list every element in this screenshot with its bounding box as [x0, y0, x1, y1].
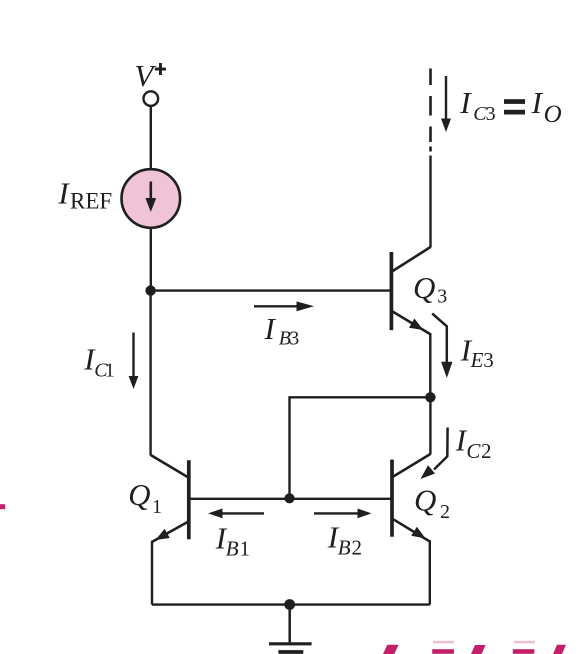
- transistor Q3: [391, 247, 430, 334]
- node D junction dot: [284, 599, 295, 610]
- svg-text:3: 3: [289, 327, 299, 349]
- label IREF: [57, 175, 112, 213]
- svg-text:I: I: [264, 311, 277, 346]
- label IB3: [264, 311, 300, 349]
- label IB1: [215, 521, 250, 561]
- bottom magenta equation fragment I: [471, 645, 486, 654]
- IB2 current arrow: [314, 509, 372, 519]
- svg-text:1: 1: [240, 536, 251, 560]
- svg-text:Q: Q: [128, 477, 150, 512]
- current source IREF: [122, 169, 181, 228]
- IB1 current arrow: [208, 509, 264, 519]
- IB3 current arrow: [254, 301, 314, 311]
- left edge magenta fragment: [0, 504, 5, 509]
- V+ terminal: [144, 91, 159, 106]
- wire Q2 emitter down: [429, 541, 431, 605]
- transistor Q1: [151, 455, 189, 542]
- IC1 current arrow: [129, 333, 139, 390]
- svg-text:I: I: [57, 175, 70, 210]
- bottom magenta equation fragment I: [383, 645, 399, 654]
- svg-text:2: 2: [481, 439, 492, 463]
- wire Q3 emitter down: [429, 333, 431, 397]
- IE3 current arrow: [432, 314, 452, 379]
- node A junction dot: [145, 285, 155, 295]
- IC3 output current arrow: [441, 76, 451, 132]
- svg-text:3: 3: [483, 348, 494, 372]
- wire V+ to current source: [150, 106, 152, 170]
- transistor Q2: [392, 454, 430, 542]
- wire current source to node A: [150, 229, 152, 292]
- label Q3: [413, 270, 447, 308]
- ground: [269, 605, 312, 653]
- node V+ label: [134, 58, 166, 93]
- svg-text:1: 1: [152, 496, 162, 518]
- bottom magenta equation fragment =: [513, 641, 535, 654]
- wire Q3 collector: [429, 156, 431, 248]
- label IB2: [327, 520, 362, 560]
- bottom magenta equation fragment I: [553, 645, 566, 654]
- dashed output wire: [429, 69, 432, 152]
- svg-text:V: V: [134, 58, 156, 93]
- svg-text:Q: Q: [413, 270, 435, 305]
- label IC2: [455, 423, 492, 464]
- svg-text:B: B: [338, 535, 351, 559]
- svg-text:1: 1: [105, 359, 115, 381]
- svg-text:I: I: [531, 85, 544, 120]
- svg-text:2: 2: [440, 501, 450, 523]
- wire node A to Q3 base: [151, 289, 390, 291]
- wire node A down to Q1 collector: [149, 291, 151, 456]
- label Q1: [128, 477, 162, 518]
- wire bottom rail: [152, 603, 430, 605]
- node C junction dot: [425, 392, 435, 402]
- svg-text:2: 2: [352, 535, 363, 559]
- wire Q1 emitter down: [151, 541, 153, 605]
- node B junction dot: [284, 493, 294, 503]
- label IE3: [460, 333, 494, 373]
- wire node C to left bend down to node B: [290, 397, 431, 499]
- svg-text:3: 3: [486, 103, 496, 125]
- svg-text:I: I: [459, 85, 472, 120]
- wire Q2 collector: [429, 397, 431, 454]
- IC2 current arrow: [421, 428, 448, 480]
- svg-text:REF: REF: [70, 189, 112, 214]
- label IC1: [83, 341, 115, 381]
- wire base rail Q1 to Q2: [191, 498, 391, 500]
- label IC3 = IO: [459, 85, 561, 128]
- svg-text:C: C: [466, 439, 481, 463]
- svg-text:Q: Q: [414, 483, 436, 518]
- svg-text:O: O: [544, 101, 562, 128]
- bottom magenta equation fragment =: [432, 641, 454, 654]
- svg-text:B: B: [226, 536, 239, 560]
- svg-text:3: 3: [437, 286, 447, 308]
- label Q2: [414, 483, 450, 524]
- svg-text:E: E: [470, 348, 484, 372]
